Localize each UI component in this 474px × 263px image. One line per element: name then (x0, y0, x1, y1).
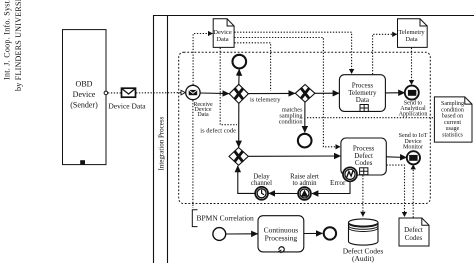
svg-text:by FLINDERS UNIVERSITY LIBRARY: by FLINDERS UNIVERSITY LIBRARY on 01/3 (14, 0, 23, 91)
svg-text:based on: based on (442, 114, 463, 120)
svg-text:current: current (444, 120, 461, 126)
svg-text:condition: condition (279, 118, 304, 125)
svg-text:Int. J. Coop. Info. Syst. Down: Int. J. Coop. Info. Syst. Downloaded fro… (3, 0, 12, 80)
svg-text:OBD: OBD (76, 80, 93, 89)
svg-text:Device: Device (73, 90, 96, 99)
svg-text:Monitor: Monitor (403, 145, 423, 151)
svg-text:(Audit): (Audit) (352, 254, 375, 263)
svg-text:(Sender): (Sender) (70, 101, 98, 110)
svg-text:Data: Data (405, 36, 417, 43)
svg-text:Codes: Codes (405, 234, 423, 242)
svg-text:Data: Data (197, 112, 209, 118)
svg-text:is defect code: is defect code (200, 128, 236, 135)
svg-text:Processing: Processing (265, 234, 298, 243)
svg-text:to admin: to admin (293, 180, 318, 187)
svg-text:Device Data: Device Data (108, 101, 146, 110)
svg-text:Sampling: Sampling (441, 101, 464, 107)
svg-text:Integration Process: Integration Process (158, 116, 166, 170)
svg-text:condition: condition (441, 107, 464, 113)
svg-text:statistics: statistics (442, 133, 463, 139)
svg-text:Telemetry: Telemetry (398, 29, 425, 36)
svg-text:Application: Application (399, 112, 428, 118)
svg-text:Data: Data (216, 36, 228, 43)
svg-text:Error: Error (330, 178, 346, 187)
svg-text:BPMN Correlation: BPMN Correlation (197, 214, 255, 223)
svg-text:Defect: Defect (404, 226, 423, 234)
svg-text:Device: Device (213, 29, 232, 36)
svg-text:Codes: Codes (355, 159, 373, 167)
svg-text:usage: usage (446, 126, 460, 132)
svg-text:Data: Data (356, 96, 370, 104)
svg-text:is telemetry: is telemetry (250, 96, 281, 103)
svg-text:channel: channel (251, 180, 272, 187)
